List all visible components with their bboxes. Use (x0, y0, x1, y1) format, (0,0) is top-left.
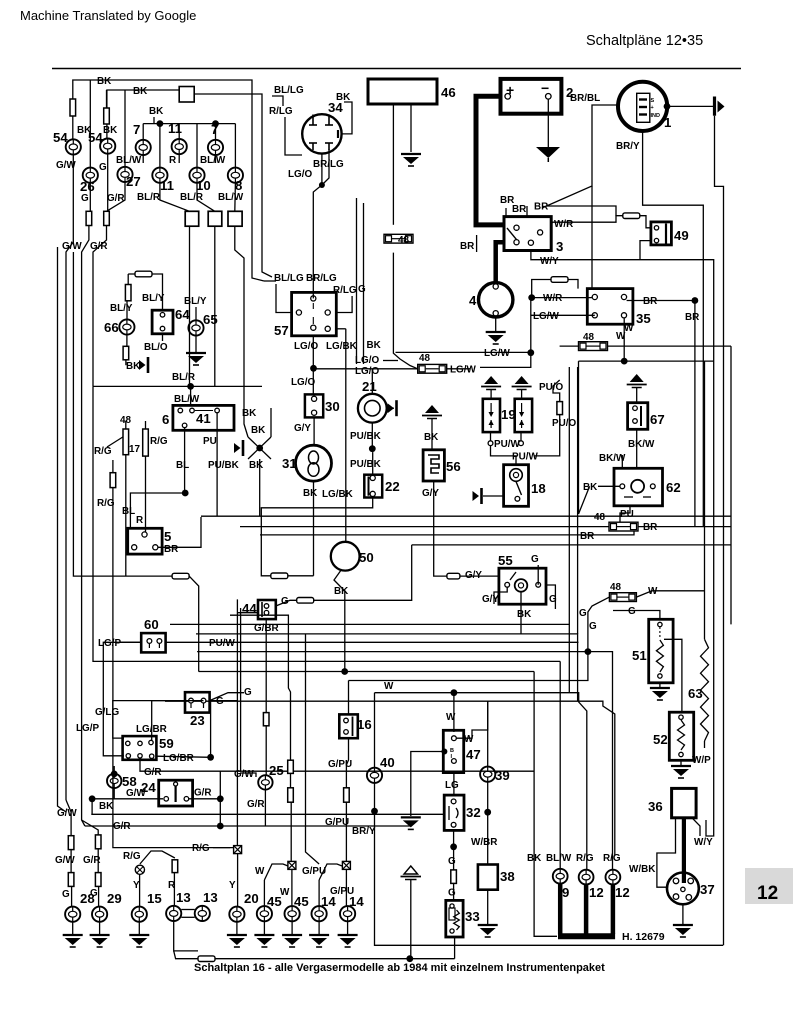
svg-text:54: 54 (88, 130, 103, 145)
bar in 22 (368, 477, 370, 496)
fuse 48 W lower (609, 593, 636, 602)
junction G/R 24 (217, 795, 224, 802)
svg-text:57: 57 (274, 323, 289, 338)
lamp 7a (136, 140, 151, 155)
svg-text:6: 6 (162, 412, 169, 427)
wire bottom lead (215, 958, 455, 960)
junction LG/O (310, 365, 317, 372)
wire BL/LG tick (264, 280, 276, 282)
arrow in 19b (521, 403, 523, 414)
svg-text:BK: BK (303, 488, 318, 499)
svg-text:LG/BK: LG/BK (322, 489, 354, 500)
svg-text:BL/W: BL/W (174, 394, 200, 405)
wire 45a gnd (263, 921, 265, 934)
svg-text:58: 58 (122, 774, 137, 789)
wire 16 feed (348, 681, 350, 715)
svg-text:56: 56 (446, 459, 461, 474)
wire bus 569 (568, 367, 570, 624)
wire 52 to ground (680, 760, 682, 765)
arrow ground above BK 56 (422, 405, 442, 419)
wire bus to 14a (306, 634, 320, 864)
power ground symbol right (713, 97, 716, 116)
wire 15 gnd (138, 922, 140, 934)
lamp 11b (152, 168, 167, 183)
wire 47 to ground (411, 752, 445, 817)
wire bus 240 (240, 608, 242, 771)
wire bus G row 1 (201, 515, 731, 517)
svg-text:G/R: G/R (144, 767, 162, 778)
resistor feed lamp 54a (70, 99, 76, 116)
resistor R/G (110, 473, 116, 488)
arc in 32 (448, 806, 450, 820)
pin of 34 (312, 143, 314, 150)
svg-text:G/R: G/R (194, 788, 212, 799)
svg-text:G/Y: G/Y (294, 423, 311, 434)
wire 20 gnd (236, 922, 238, 934)
wire R/G long down (113, 488, 234, 848)
svg-text:BR: BR (512, 204, 526, 215)
wire R/G bracket (140, 851, 175, 864)
junction W (621, 358, 628, 365)
wire BL/R horizontal (93, 385, 262, 387)
wire 50 BK down (334, 570, 345, 672)
junction LG/W (527, 349, 534, 356)
lamp unit 31 (296, 445, 332, 481)
resistor col C (104, 211, 110, 225)
lamp 12a (579, 870, 594, 885)
switch 23 (185, 692, 210, 712)
wire to resistor 66 (127, 274, 129, 285)
wire 45b mid (290, 773, 292, 787)
wire LG/O to fuse 48 (314, 368, 418, 370)
junction bus 671 (341, 668, 348, 675)
wire G/R left column long (82, 226, 89, 827)
svg-text:BR/LG: BR/LG (306, 273, 337, 284)
arrow in 19a2 (490, 420, 492, 428)
svg-text:38: 38 (500, 869, 515, 884)
switch 47 (443, 730, 463, 772)
svg-text:32: 32 (466, 805, 481, 820)
switch 44 (258, 600, 276, 619)
svg-text:R/G: R/G (123, 851, 141, 862)
terminal S (639, 98, 647, 100)
wire R/G b (612, 714, 614, 870)
junction PU/BK (369, 445, 376, 452)
svg-text:47: 47 (466, 747, 481, 762)
wire left bus to fuse (73, 252, 172, 576)
switch 57 (292, 292, 337, 335)
wire to lamp 11b (159, 124, 161, 168)
wire W/R to 35 (532, 297, 593, 299)
ground lamp 45a (254, 935, 274, 947)
resistor above 66 (125, 285, 131, 301)
svg-text:PU: PU (620, 509, 634, 520)
svg-text:BR/Y: BR/Y (616, 141, 640, 152)
unit 38 (478, 865, 498, 890)
svg-text:BL/W: BL/W (546, 853, 572, 864)
wire left bus 93 (93, 386, 560, 661)
wire 7b stub (215, 155, 217, 163)
svg-text:PU/W: PU/W (512, 452, 538, 463)
junction W/BR (484, 809, 491, 816)
junction under 32 (450, 843, 457, 850)
wire 21 to horn (387, 407, 394, 409)
resistor feed 54b (104, 108, 110, 124)
wire G/PU from 16 down (346, 738, 348, 865)
wire 45a (263, 880, 265, 906)
svg-text:Y: Y (229, 880, 236, 891)
lamp 13a (166, 906, 181, 921)
lamp 54a (66, 139, 81, 154)
pin tail (158, 643, 160, 648)
svg-text:64: 64 (175, 307, 190, 322)
resistor 13 (172, 860, 178, 873)
switch 24 (159, 780, 193, 806)
ground lamp 29 (90, 935, 110, 947)
ground lamp 28 (63, 935, 83, 947)
wire gnd to 19a (490, 390, 492, 399)
wire 58 down (113, 788, 115, 799)
svg-text:BR/Y: BR/Y (352, 826, 376, 837)
svg-text:45: 45 (294, 894, 309, 909)
arrow ground 67 (627, 374, 647, 388)
ground under battery (536, 147, 560, 158)
wire 63 up (704, 361, 706, 639)
wire X down (259, 459, 261, 516)
svg-text:LG/BK: LG/BK (326, 341, 358, 352)
svg-text:G/W: G/W (55, 855, 75, 866)
svg-text:BK: BK (517, 609, 532, 620)
arrow in 62b (643, 496, 651, 498)
junction LG/BR (207, 754, 214, 761)
lamp 9 (553, 869, 568, 884)
ground under 65 (186, 353, 206, 365)
wire BR from 35 (627, 300, 695, 302)
svg-text:G/PU: G/PU (302, 866, 326, 877)
svg-text:BK: BK (367, 340, 382, 351)
wire far left bus (58, 247, 67, 812)
wire BK lamp bus (143, 123, 235, 125)
lamp 28 (65, 907, 80, 922)
svg-text:20: 20 (244, 891, 259, 906)
wire 57 right pin up (336, 296, 352, 313)
svg-text:63: 63 (688, 686, 703, 701)
wire W/R to fuse (551, 216, 623, 223)
svg-text:G: G (216, 696, 224, 707)
svg-text:29: 29 (107, 891, 122, 906)
svg-text:BK: BK (242, 408, 257, 419)
wire 58 feed (113, 766, 115, 773)
wire 21 down (371, 423, 373, 449)
resistor 45b lower (288, 788, 294, 802)
wire down from W bus (578, 361, 580, 514)
arrow in 19a (490, 403, 492, 414)
svg-text:R/G: R/G (576, 853, 594, 864)
wire to lamp 7a (142, 124, 144, 140)
wire LG/O from 34 down (313, 154, 322, 284)
svg-text:G: G (99, 162, 107, 173)
switch 18 (504, 465, 529, 507)
svg-text:R: R (136, 515, 143, 526)
lamp 54b (100, 139, 115, 154)
svg-text:11: 11 (168, 121, 182, 136)
unit 22 (364, 475, 382, 498)
svg-text:W: W (280, 887, 290, 898)
svg-text:Schaltpläne 12•35: Schaltpläne 12•35 (586, 33, 703, 49)
svg-text:H. 12679: H. 12679 (622, 931, 665, 943)
wire 29 gnd (99, 922, 101, 934)
ground lamp 14b (338, 935, 358, 947)
wire 45b to symbol (290, 802, 292, 861)
element in 52 (678, 720, 685, 750)
wire to lamp 8 (234, 124, 236, 168)
svg-text:BK: BK (251, 425, 266, 436)
svg-text:51: 51 (632, 648, 647, 663)
wire bus 634 (196, 634, 578, 701)
pin tail (148, 643, 150, 648)
wire bus 814 (91, 813, 445, 815)
svg-text:G/LG: G/LG (95, 707, 119, 718)
wire 39 feed (487, 701, 489, 767)
unit 35 (587, 289, 633, 325)
wire 54b down (107, 154, 109, 212)
fuse on left G bus (172, 573, 189, 579)
switch lever 3 (507, 228, 517, 240)
wire BL/LG hook (272, 96, 283, 106)
wire 10 to connector (197, 183, 215, 211)
horn symbol 18 (473, 488, 482, 504)
svg-text:LG/W: LG/W (484, 348, 510, 359)
svg-text:LG/O: LG/O (355, 366, 379, 377)
svg-text:G: G (448, 888, 456, 899)
svg-text:W: W (624, 323, 634, 334)
lamp 58 (107, 774, 121, 788)
resistor 63 (701, 639, 709, 741)
horn symbol 66 (139, 357, 148, 373)
wire 44 left (237, 612, 258, 614)
wire 30 to 31 (313, 417, 315, 445)
wire G/W to 25 (240, 773, 256, 777)
wire G into 55 (537, 565, 539, 585)
svg-text:W: W (384, 681, 394, 692)
lamp 40 (367, 768, 382, 783)
wire aerial down (410, 880, 412, 959)
wire BR from 5 (158, 517, 201, 547)
wire 32 down (453, 830, 455, 846)
ground under 51 (650, 688, 670, 700)
svg-text:41: 41 (196, 411, 211, 426)
wire W/Y from coil (692, 818, 700, 836)
svg-text:G: G (579, 608, 587, 619)
wire BR lower (260, 534, 590, 536)
wire to lamp 11a (178, 124, 180, 140)
wire BR bus down (694, 301, 696, 527)
switch 60 (141, 633, 165, 652)
svg-text:BR: BR (643, 296, 657, 307)
svg-text:BL/Y: BL/Y (184, 296, 207, 307)
svg-text:12: 12 (615, 885, 630, 900)
wire R/G stub (112, 460, 114, 473)
svg-text:BK: BK (133, 86, 148, 97)
wire BL/W col to X (244, 300, 248, 437)
wire gnd to 19b (521, 390, 523, 399)
wire 22 exit to fuse (261, 498, 372, 576)
junction BK bus 1 (157, 120, 164, 127)
wire BK to lamp 27 (124, 90, 126, 167)
svg-text:49: 49 (674, 228, 689, 243)
wire G from 55 right (546, 585, 555, 609)
wire X up right (270, 408, 272, 437)
fuse 48 vertical (123, 429, 129, 455)
wire BK from 62 (598, 485, 620, 487)
svg-text:PU/W: PU/W (209, 638, 235, 649)
heavy coil to distributor (682, 818, 686, 883)
distributor 37 (667, 873, 699, 905)
svg-text:48: 48 (398, 235, 409, 246)
heavy wire switch to starter (496, 242, 504, 283)
svg-text:9: 9 (562, 885, 569, 900)
svg-text:BK: BK (249, 460, 264, 471)
wire LG/BR up (210, 701, 212, 757)
wire BK to column 34 area (195, 94, 272, 277)
wire bus 651 (197, 652, 612, 714)
wire 14a (318, 880, 320, 906)
wire 46 leg to LG fuse (393, 253, 417, 369)
wire PU/W to 18 (491, 446, 517, 465)
wire right bus 731 (730, 346, 732, 624)
element in 33 (449, 908, 455, 920)
bar in 49 (665, 224, 667, 244)
svg-text:R/LG: R/LG (269, 106, 293, 117)
wire BK to 56 (431, 419, 433, 450)
svg-text:16: 16 (357, 717, 372, 732)
svg-text:BR: BR (580, 531, 594, 542)
arrow in 62a (624, 496, 633, 498)
wire fuse left (128, 273, 135, 275)
wire 49 lower pin (640, 241, 651, 260)
lamp 65 (188, 320, 203, 335)
junction LG/O 34 (319, 182, 325, 188)
svg-text:BR: BR (534, 202, 548, 213)
svg-text:G: G (244, 687, 252, 698)
ground lamp 15 (129, 935, 149, 947)
arrow in 57b (312, 317, 314, 324)
wire 11a stub (178, 154, 180, 163)
wire to 33 (453, 883, 455, 900)
wire 54b (106, 124, 108, 139)
junction BL (182, 490, 189, 497)
svg-text:PU: PU (203, 436, 217, 447)
terminal IND (639, 113, 647, 115)
svg-text:60: 60 (144, 617, 159, 632)
svg-text:67: 67 (650, 412, 665, 427)
wire 45b (291, 869, 293, 906)
pin bar (325, 142, 333, 144)
svg-text:R/G: R/G (192, 843, 210, 854)
detail in 18 (510, 469, 523, 482)
svg-text:W/R: W/R (543, 293, 562, 304)
battery heavy cable to ignition switch (476, 96, 504, 225)
svg-text:W/Y: W/Y (694, 837, 713, 848)
ground under 46 (401, 154, 421, 166)
wire fuse to lamp 31 column (288, 575, 314, 577)
svg-text:G: G (448, 856, 456, 867)
wire BR right (547, 206, 616, 216)
wire W from 47 up (456, 701, 487, 738)
svg-text:4: 4 (469, 293, 477, 308)
wire G/W to 24 (92, 798, 163, 800)
svg-text:W: W (255, 866, 265, 877)
resistor 28b (68, 873, 74, 887)
wire PU down (216, 413, 218, 516)
bar in 24 (175, 784, 177, 802)
junction X (256, 445, 263, 452)
svg-text:BL/W: BL/W (218, 192, 244, 203)
svg-text:LG/O: LG/O (288, 169, 312, 180)
wire 28 (70, 850, 72, 873)
svg-text:13: 13 (203, 890, 218, 905)
wire BK top feed left (73, 80, 264, 281)
svg-text:W/R: W/R (554, 219, 573, 230)
wire BL/R long down a (189, 226, 191, 386)
svg-text:LG: LG (445, 780, 459, 791)
ignition switch 3 (504, 217, 551, 251)
wire LG/W to 35 (557, 314, 595, 316)
resistor G/BR (263, 713, 269, 726)
wire G bus to 16 (349, 652, 588, 681)
svg-text:W/P: W/P (692, 755, 711, 766)
svg-text:W: W (616, 331, 626, 342)
wire 19b pin (520, 432, 522, 441)
resistor 45b upper (288, 760, 294, 773)
svg-text:G/W: G/W (234, 769, 254, 780)
svg-text:BL: BL (176, 460, 189, 471)
junction alternator output (664, 103, 671, 110)
wire 28 to lamp (71, 886, 73, 906)
svg-text:50: 50 (359, 550, 374, 565)
wire 23 to 59 (113, 701, 185, 739)
svg-text:LG/P: LG/P (76, 723, 99, 734)
svg-text:22: 22 (385, 479, 400, 494)
wire BR row right (638, 526, 731, 528)
svg-text:23: 23 (190, 713, 205, 728)
switch 16 (339, 714, 358, 738)
svg-text:37: 37 (700, 882, 715, 897)
wire BK/W stub (621, 455, 623, 468)
wire 54a (72, 116, 74, 140)
svg-text:IND: IND (651, 113, 661, 119)
svg-text:BK: BK (103, 125, 118, 136)
svg-text:15: 15 (147, 891, 162, 906)
wire 13 pair bottom (181, 916, 194, 918)
wire W fuse right (608, 345, 732, 347)
glow unit 56 (423, 450, 444, 481)
wire starter to ground (495, 316, 497, 331)
wire 14b (345, 869, 347, 906)
wire 57 left pin (276, 284, 292, 313)
wire BR/BL down to unit 35 (591, 186, 593, 289)
wire LG/O tick (383, 360, 398, 362)
svg-text:BL/Y: BL/Y (142, 293, 165, 304)
pin of 34 (328, 115, 330, 126)
wire LG 47 to 32 (453, 773, 455, 796)
wire bus 577 (577, 367, 579, 634)
wire BL/W down c (235, 226, 244, 300)
pin of 34 (328, 143, 330, 150)
switch 67 (628, 403, 648, 430)
lamp 39 (480, 767, 495, 782)
svg-text:3: 3 (556, 239, 563, 254)
